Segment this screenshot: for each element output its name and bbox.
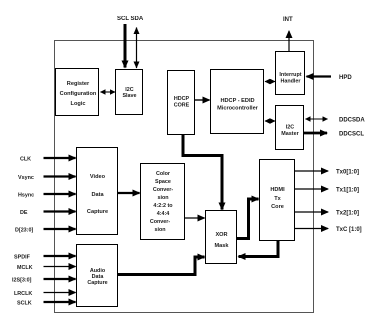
svg-text:Capture: Capture [87,209,108,215]
svg-text:sion: sion [157,195,168,201]
wire HPD -> Interrupt Handler [307,75,332,77]
wire DE input [44,210,76,212]
wire Audio Data Capture -> XOR Mask (thick elbow) [118,257,205,275]
svg-text:Slave: Slave [122,93,136,99]
svg-text:Data: Data [91,192,104,198]
svg-text:Tx0[1:0]: Tx0[1:0] [336,170,359,176]
wire Microcontroller <-> Interrupt Handler [265,81,275,83]
wire TxC[1:0] output [295,228,328,230]
svg-text:CORE: CORE [174,103,190,109]
block Color Space Conversion [141,164,185,240]
svg-text:D[23:0]: D[23:0] [15,228,33,234]
svg-text:LRCLK: LRCLK [14,291,32,297]
svg-text:Capture: Capture [87,280,107,286]
svg-text:MCLK: MCLK [17,265,33,271]
svg-text:DDCSDA: DDCSDA [339,118,365,124]
wire Register Config Logic <-> I2C Slave [101,91,116,93]
block Audio Data Capture [77,245,118,307]
block I2C Slave [116,70,143,115]
svg-text:SCL SDA: SCL SDA [117,16,144,22]
block HDCP - EDID Microcontroller [211,70,264,134]
svg-text:sion: sion [154,227,165,233]
wire INT (out of Interrupt Handler) [288,31,290,52]
wire D[23:0] input [44,228,76,230]
wire HDCP CORE -> Microcontroller [195,99,210,101]
svg-text:Microcontroller: Microcontroller [217,106,259,112]
block HDCP CORE [168,71,195,135]
svg-text:Conver-: Conver- [153,187,174,193]
wire Tx0[1:0] output [295,170,328,172]
svg-text:INT: INT [283,17,293,23]
svg-text:HDCP - EDID: HDCP - EDID [220,98,254,104]
wire Hsync input [44,193,76,195]
svg-text:I2S[3:0]: I2S[3:0] [12,278,32,284]
svg-text:Mask: Mask [215,243,230,249]
wire SDA (bidirectional) [136,28,138,69]
wire DDCSDA (bidirectional) [306,118,328,120]
svg-text:Interrupt: Interrupt [279,72,301,78]
svg-text:Core: Core [271,204,284,210]
svg-text:Master: Master [281,131,299,137]
wire HDMI Tx Core -> XOR Mask (thick elbow, bottom) [239,241,279,257]
svg-text:Video: Video [90,174,106,180]
svg-text:HDMI: HDMI [270,187,285,193]
svg-text:Tx: Tx [274,196,281,202]
wire LRCLK input [44,292,76,294]
svg-text:Vsync: Vsync [18,175,34,181]
block HDMI Tx Core [260,160,295,241]
wire Microcontroller <-> I2C Master [265,120,275,122]
svg-text:I2C: I2C [286,125,294,131]
block Interrupt Handler [276,52,305,95]
svg-text:Configuration: Configuration [60,91,97,97]
svg-text:Logic: Logic [71,101,86,107]
block Register Configuration Logic [56,69,99,116]
wire Color Space Conversion -> XOR Mask [185,217,205,219]
outer chip boundary [55,41,314,313]
svg-text:CLK: CLK [20,157,31,163]
wire Vsync input [44,175,76,177]
wire DDCSCL (out) [304,132,327,135]
wire XOR Mask -> HDMI Tx Core (thick elbow) [237,199,259,239]
wire SCL (thick, into I2C Slave) [124,24,127,68]
wire HDCP CORE -> XOR Mask (thick elbow) [183,135,222,210]
wire I2S[3:0] input [44,278,76,280]
wire MCLK input [44,266,76,268]
wire Tx2[1:0] output [295,211,328,213]
block I2C Master [276,106,304,150]
svg-text:HPD: HPD [339,75,352,81]
svg-text:Space: Space [155,179,171,185]
svg-text:Hsync: Hsync [18,193,34,199]
svg-text:SCLK: SCLK [17,301,32,307]
svg-text:4:2:2 to: 4:2:2 to [153,203,173,209]
svg-text:TxC [1:0]: TxC [1:0] [336,227,362,233]
svg-text:Handler: Handler [280,79,301,85]
wire SCLK input [44,301,76,303]
wire CLK input [44,157,76,159]
svg-text:DE: DE [20,210,28,216]
block XOR Mask [206,211,237,264]
svg-text:XOR: XOR [215,232,227,238]
wire Video Data Capture -> Color Space Conversion [118,192,140,194]
svg-text:DDCSCL: DDCSCL [339,132,364,138]
svg-text:Register: Register [67,81,90,87]
svg-text:Tx2[1:0]: Tx2[1:0] [336,211,359,217]
svg-text:Color: Color [156,171,171,177]
svg-text:HDCP: HDCP [174,96,190,102]
svg-text:Conver-: Conver- [150,219,171,225]
svg-text:SPDIF: SPDIF [14,255,31,261]
svg-text:4:4:4: 4:4:4 [157,211,170,217]
wire Tx1[1:0] output [295,188,328,190]
svg-text:Tx1[1:0]: Tx1[1:0] [336,188,359,194]
block Video Data Capture [77,148,118,235]
wire SPDIF input [44,255,76,257]
